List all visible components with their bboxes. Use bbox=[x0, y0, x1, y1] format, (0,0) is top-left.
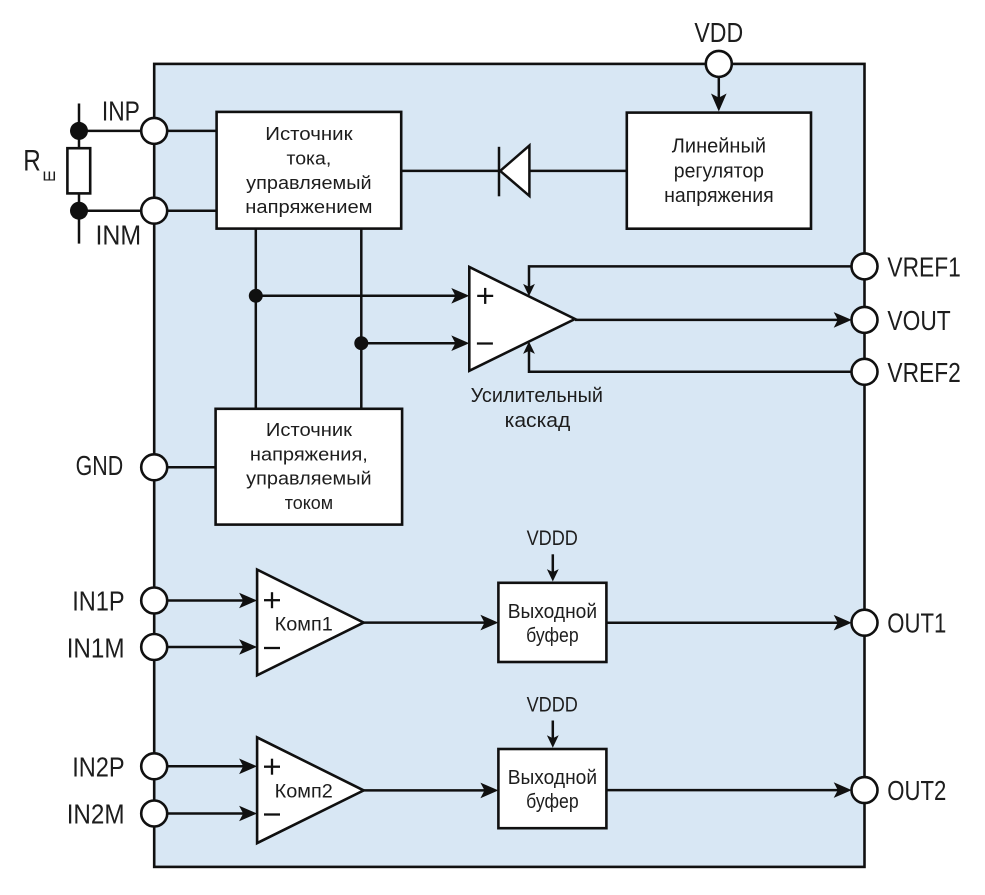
svg-text:VDDD: VDDD bbox=[527, 693, 578, 716]
wire buffer2 to OUT2 bbox=[606, 782, 851, 798]
wire INM to block bbox=[79, 209, 217, 212]
svg-text:буфер: буфер bbox=[526, 625, 579, 647]
svg-text:Комп1: Комп1 bbox=[275, 615, 333, 636]
svg-text:VDDD: VDDD bbox=[527, 527, 578, 550]
svg-text:OUT1: OUT1 bbox=[887, 607, 946, 638]
svg-text:GND: GND bbox=[76, 450, 124, 481]
svg-text:напряжения: напряжения bbox=[664, 185, 774, 207]
pin IN2M bbox=[141, 801, 167, 827]
wire buffer1 to OUT1 bbox=[606, 615, 851, 631]
comparator U6 Комп2 bbox=[257, 737, 364, 843]
wire IN1P to comparator bbox=[154, 593, 257, 609]
wire VREF1 feedback bbox=[523, 266, 852, 296]
pin INM bbox=[141, 198, 167, 224]
svg-text:IN1P: IN1P bbox=[72, 586, 124, 617]
wire INM stub below Rш bbox=[78, 193, 81, 243]
svg-text:Выходной: Выходной bbox=[508, 601, 597, 623]
block U1 voltage-controlled current source bbox=[217, 112, 402, 229]
junction node on inverting wire bbox=[354, 336, 368, 350]
node INP junction bbox=[70, 122, 88, 140]
pin OUT2 bbox=[852, 777, 878, 803]
svg-text:IN2M: IN2M bbox=[67, 799, 125, 830]
svg-text:напряжением: напряжением bbox=[245, 197, 372, 217]
diode D1 bbox=[499, 146, 529, 197]
wire comparator2 to buffer2 bbox=[364, 783, 499, 799]
wire to op-amp inverting input bbox=[361, 335, 469, 351]
pin IN1M bbox=[141, 634, 167, 660]
svg-text:ш: ш bbox=[43, 166, 57, 185]
wire GND to U3 bbox=[154, 466, 215, 469]
pin INP bbox=[141, 118, 167, 144]
wire comparator1 to buffer1 bbox=[364, 615, 499, 631]
resistor Rш bbox=[67, 148, 90, 193]
svg-text:регулятор: регулятор bbox=[674, 160, 764, 182]
comparator U4 Комп1 bbox=[257, 570, 364, 676]
svg-text:Усилительный: Усилительный bbox=[471, 385, 603, 407]
svg-text:каскад: каскад bbox=[505, 410, 571, 432]
svg-text:INP: INP bbox=[102, 96, 140, 127]
svg-text:IN2P: IN2P bbox=[72, 751, 124, 782]
block U2 linear voltage regulator bbox=[627, 113, 811, 229]
pin VREF1 bbox=[852, 253, 878, 279]
svg-text:током: током bbox=[285, 493, 333, 513]
wire IN1M to comparator bbox=[154, 639, 257, 655]
svg-text:VREF2: VREF2 bbox=[887, 357, 960, 388]
pin IN1P bbox=[141, 588, 167, 614]
svg-text:Линейный: Линейный bbox=[672, 136, 766, 158]
svg-text:IN1M: IN1M bbox=[67, 632, 125, 663]
block U7 output buffer 2 bbox=[498, 749, 606, 828]
svg-text:Выходной: Выходной bbox=[508, 767, 597, 789]
svg-text:управляемый: управляемый bbox=[246, 469, 371, 489]
pin OUT1 bbox=[852, 610, 878, 636]
wire VREF2 feedback bbox=[523, 342, 852, 372]
wire VDD arrow into U2 bbox=[711, 77, 727, 112]
wire IN2P to comparator bbox=[154, 759, 257, 775]
wire diode to U2 bbox=[529, 170, 626, 173]
svg-text:буфер: буфер bbox=[526, 791, 579, 813]
pin VDD bbox=[706, 51, 732, 77]
op-amp A1 amplifier stage bbox=[469, 267, 575, 371]
svg-text:OUT2: OUT2 bbox=[887, 775, 946, 806]
svg-text:VREF1: VREF1 bbox=[887, 252, 960, 283]
svg-text:Комп2: Комп2 bbox=[275, 781, 333, 802]
svg-text:напряжения,: напряжения, bbox=[250, 444, 368, 464]
svg-text:Источник: Источник bbox=[266, 420, 352, 440]
svg-text:R: R bbox=[23, 145, 41, 178]
svg-text:INM: INM bbox=[96, 220, 142, 251]
wire op-amp output to VOUT bbox=[575, 312, 852, 328]
wire INP stub above Rш bbox=[78, 104, 81, 149]
pin VREF2 bbox=[852, 359, 878, 385]
wire INP to block bbox=[79, 130, 217, 133]
wire U1 bottom right to U3 bbox=[360, 229, 363, 409]
wire VDDD arrow into buffer1 bbox=[547, 554, 559, 581]
wire IN2M to comparator bbox=[154, 806, 257, 822]
wire U1 bottom left to U3 bbox=[255, 229, 258, 409]
svg-text:VDD: VDD bbox=[694, 17, 743, 48]
node INM junction bbox=[70, 202, 88, 220]
wire to op-amp noninverting input bbox=[256, 288, 469, 304]
svg-text:VOUT: VOUT bbox=[887, 305, 950, 336]
chip outline bbox=[154, 64, 864, 867]
pin IN2P bbox=[141, 753, 167, 779]
svg-text:управляемый: управляемый bbox=[246, 173, 371, 193]
junction node on noninverting wire bbox=[249, 289, 263, 303]
pin VOUT bbox=[852, 307, 878, 333]
svg-text:тока,: тока, bbox=[287, 149, 332, 169]
pin GND bbox=[141, 454, 167, 480]
svg-text:Источник: Источник bbox=[265, 124, 352, 144]
wire U1 to diode bbox=[401, 170, 499, 173]
block U5 output buffer 1 bbox=[498, 583, 606, 662]
wire VDDD arrow into buffer2 bbox=[547, 721, 559, 748]
block U3 current-controlled voltage source bbox=[216, 409, 403, 525]
